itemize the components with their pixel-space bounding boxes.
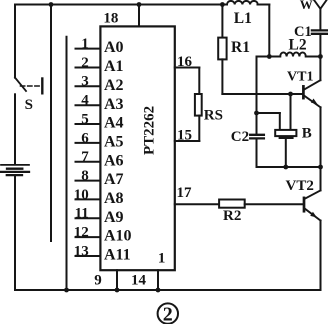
wire B left lead <box>279 113 281 130</box>
wire C2 bottom to emitter line <box>256 140 258 168</box>
wire B right lead <box>290 94 292 130</box>
node junction dot rail / line B <box>64 288 69 293</box>
svg-text:4: 4 <box>81 93 89 109</box>
svg-text:S: S <box>25 97 33 113</box>
figure number circle 2 <box>158 303 178 323</box>
svg-text:A1: A1 <box>104 58 124 75</box>
svg-text:A2: A2 <box>104 77 124 94</box>
wire B branch horizontal <box>257 112 280 114</box>
wire bottom ground rail <box>15 289 321 291</box>
svg-text:16: 16 <box>177 54 193 70</box>
svg-text:3: 3 <box>81 74 89 90</box>
wire pin 5 stub A4 <box>76 123 101 125</box>
wire left column upper (to switch) <box>14 5 16 78</box>
wire pin 1 stub A0 <box>76 48 101 50</box>
wire pin 2 stub A1 <box>76 67 101 69</box>
switch S actuator dashed link <box>21 85 40 87</box>
svg-text:1: 1 <box>81 36 89 52</box>
VT2 emitter diagonal <box>305 209 321 221</box>
wire emitter line y167 <box>257 166 321 168</box>
wire pin16 to RS <box>198 68 200 95</box>
VT1 collector diagonal <box>305 80 321 89</box>
wire pin 18 stub <box>138 5 140 27</box>
svg-text:C2: C2 <box>231 129 249 145</box>
battery GB plate long lower <box>1 171 29 173</box>
wire pin 3 stub A2 <box>76 85 101 87</box>
wire L2 row right segment <box>306 56 321 58</box>
wire pin 14 stub bottom <box>157 270 159 290</box>
wire B bottom lead <box>285 139 287 167</box>
svg-text:VT2: VT2 <box>286 178 314 194</box>
wire pin 10 stub A8 <box>76 198 101 200</box>
svg-text:A0: A0 <box>104 39 124 56</box>
svg-text:2: 2 <box>81 55 89 71</box>
svg-text:W: W <box>300 0 313 12</box>
svg-text:A4: A4 <box>104 115 124 132</box>
wire pin 15 stub <box>175 140 200 142</box>
transistor VT2 <box>286 167 321 290</box>
node junction dot rail / pin 14 <box>156 288 161 293</box>
svg-text:A8: A8 <box>104 190 124 207</box>
node junction dot C2 branch / B branch <box>254 111 259 116</box>
wire pin 16 stub <box>175 67 200 69</box>
svg-text:R1: R1 <box>231 39 250 56</box>
wire pin 9 stub bottom <box>116 270 118 290</box>
svg-text:A5: A5 <box>104 134 124 151</box>
capacitor C1 <box>312 30 328 33</box>
svg-text:11: 11 <box>75 206 89 222</box>
svg-text:A6: A6 <box>104 152 124 169</box>
transistor VT1 <box>287 57 321 168</box>
wire L1 right vertical drop <box>268 5 270 57</box>
wire VT1 collector vertical <box>319 57 321 81</box>
node junction dot base line / B right lead <box>288 92 293 97</box>
VT2 collector diagonal <box>305 190 321 198</box>
VT2 base bar <box>303 198 306 211</box>
svg-text:B: B <box>302 126 312 142</box>
svg-text:9: 9 <box>94 273 102 289</box>
wire VT2 collector vertical <box>320 167 322 190</box>
switch S push bar <box>41 79 43 94</box>
antenna W <box>314 0 327 9</box>
battery GB plate short <box>7 168 22 170</box>
node junction dot rail / pin 9 <box>115 288 120 293</box>
wire RS to pin15 <box>198 116 200 141</box>
wire top supply rail left segment <box>15 4 227 6</box>
inductor L1 <box>227 1 258 5</box>
svg-text:18: 18 <box>103 11 118 27</box>
svg-text:10: 10 <box>74 187 89 203</box>
svg-text:14: 14 <box>131 273 147 289</box>
switch S lever <box>15 78 26 91</box>
resistor R2 <box>219 200 245 208</box>
svg-text:A7: A7 <box>104 171 124 188</box>
svg-text:2: 2 <box>163 303 173 324</box>
VT1 emitter diagonal <box>305 96 321 107</box>
wire VT1 emitter vertical <box>320 107 322 167</box>
node junction dot L2 row / antenna column <box>318 54 323 59</box>
wire pin 6 stub A5 <box>76 142 101 144</box>
wire VT2 emitter vertical <box>320 221 322 290</box>
wire top rail right segment <box>258 4 270 6</box>
wire R1 to VT1 base line vertical <box>221 59 223 94</box>
VT1 emitter arrow <box>311 99 318 105</box>
wire switch to battery <box>14 94 16 164</box>
svg-text:7: 7 <box>81 149 89 165</box>
wire L2 row left segment <box>257 56 281 58</box>
node junction dot L1 drop / L2 row <box>267 54 272 59</box>
battery GB plate short bottom <box>7 174 22 176</box>
wire pin 17 line to R2 <box>175 203 219 205</box>
wire pin 12 stub A10 <box>76 236 101 238</box>
svg-text:8: 8 <box>81 168 89 184</box>
VT1 base bar <box>302 86 305 98</box>
resistor R1 <box>218 38 226 60</box>
wire VT1 base line <box>222 93 302 95</box>
svg-text:12: 12 <box>74 225 89 241</box>
svg-text:A11: A11 <box>104 247 131 264</box>
svg-text:5: 5 <box>81 111 89 127</box>
capacitor C2 <box>250 135 264 139</box>
svg-text:PT2262: PT2262 <box>142 106 158 155</box>
svg-text:13: 13 <box>74 243 89 259</box>
svg-text:17: 17 <box>177 185 193 201</box>
svg-text:VT1: VT1 <box>287 70 313 85</box>
buzzer B sole bar <box>279 136 294 139</box>
svg-text:15: 15 <box>177 127 192 143</box>
svg-text:A10: A10 <box>104 228 132 245</box>
node junction dot top rail / pin 18 <box>137 2 142 7</box>
IC U1 PT2262 body <box>100 26 174 270</box>
node junction dot B lead / emitter line <box>283 165 288 170</box>
node junction dot emitter line / right column <box>318 165 323 170</box>
svg-text:L1: L1 <box>234 10 252 27</box>
wire pin 8 stub A7 <box>76 180 101 182</box>
wire pin 13 stub A11 <box>76 255 101 257</box>
svg-text:A9: A9 <box>104 209 124 226</box>
wire antenna to C1 <box>319 9 321 30</box>
node junction dot top rail / R1 branch <box>220 2 225 7</box>
svg-text:R2: R2 <box>223 208 241 224</box>
wire address line A (from supply) <box>50 5 52 242</box>
svg-text:C1: C1 <box>294 24 312 40</box>
wire battery to bottom rail <box>14 176 16 290</box>
wire pin 4 stub A3 <box>76 104 101 106</box>
svg-text:RS: RS <box>204 108 223 124</box>
svg-text:A3: A3 <box>104 96 124 113</box>
svg-text:6: 6 <box>81 130 89 146</box>
wire address line B (to ground) <box>66 37 68 290</box>
VT2 emitter arrow <box>310 212 317 218</box>
svg-text:1: 1 <box>158 250 166 266</box>
node junction dot top rail / line A <box>49 2 54 7</box>
wire R1 branch vertical upper <box>221 5 223 38</box>
wire pin 11 stub A9 <box>76 217 101 219</box>
wire C1 to L2 row <box>319 35 321 57</box>
inductor L2 <box>280 52 306 56</box>
buzzer B body <box>275 130 296 136</box>
resistor RS <box>195 94 202 116</box>
wire pin 7 stub A6 <box>76 161 101 163</box>
battery GB plate long top <box>1 164 29 166</box>
wire R2 to VT2 base <box>245 203 303 205</box>
wire C2 branch vertical (L2 left drop) <box>256 57 258 135</box>
